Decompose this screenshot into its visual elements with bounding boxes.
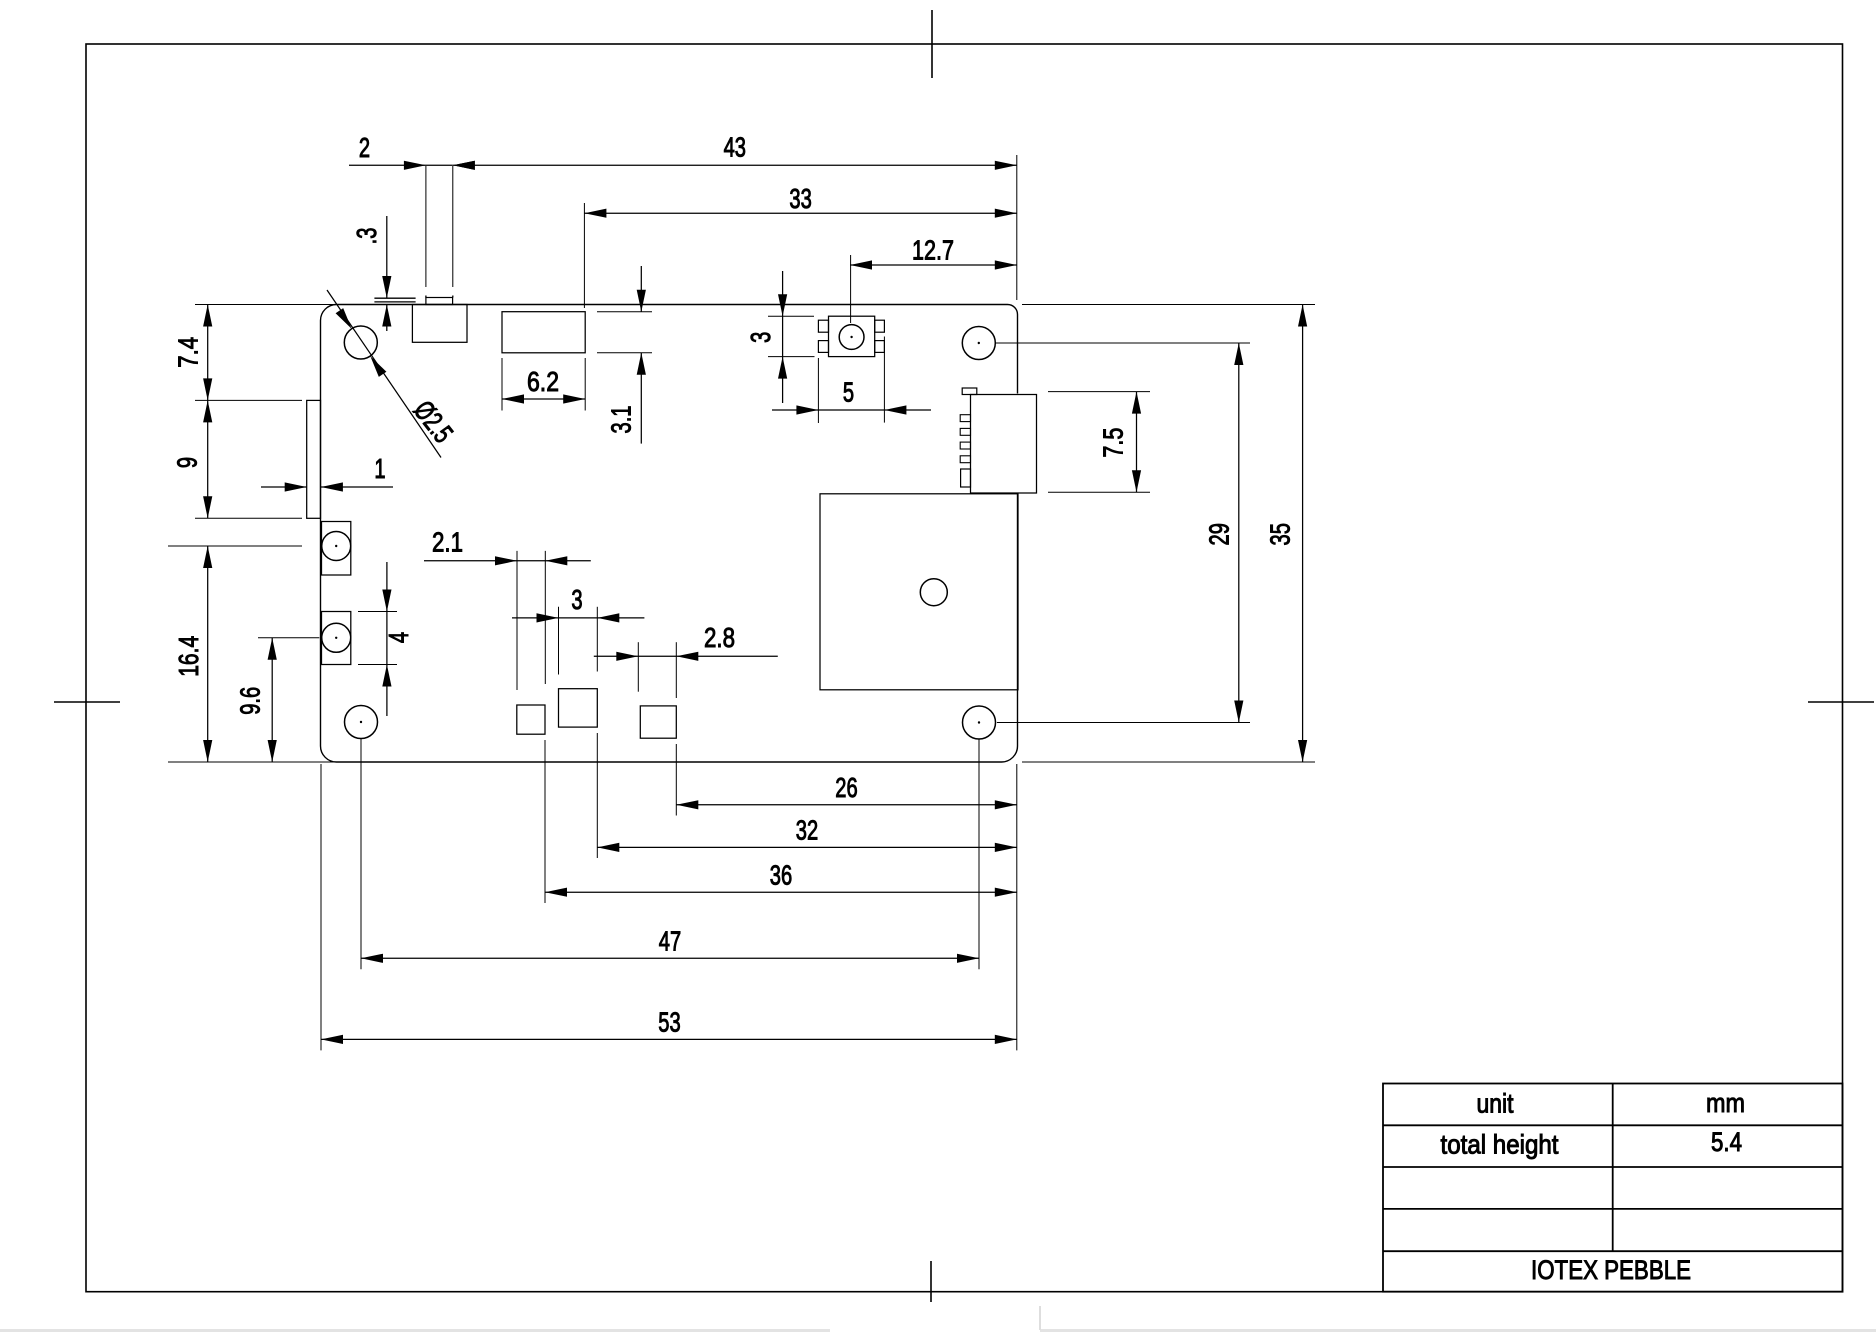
- dimension 7.5 extension lines: [1048, 391, 1150, 393]
- dimension 1 lines: [261, 486, 307, 488]
- dimension 32 line: [597, 846, 1017, 848]
- svg-text:35: 35: [1265, 523, 1296, 545]
- module centre circle: [920, 579, 947, 606]
- dimension 3 ufl extension lines: [768, 315, 814, 317]
- dimension 12.7 extension line: [850, 255, 852, 323]
- hole diameter leader line: [327, 290, 441, 458]
- svg-text:29: 29: [1204, 523, 1235, 545]
- svg-text:36: 36: [770, 860, 792, 891]
- svg-text:3.1: 3.1: [606, 406, 637, 434]
- svg-text:47: 47: [659, 926, 681, 957]
- u.FL antenna connector body: [829, 316, 875, 356]
- svg-text:33: 33: [789, 183, 811, 214]
- dimension 6.2 line: [502, 398, 585, 400]
- frame centre tick bottom: [930, 1261, 932, 1302]
- dimension 47 extension lines: [360, 739, 362, 970]
- svg-text:7.4: 7.4: [173, 337, 204, 368]
- dimension 9.6 line: [271, 638, 273, 762]
- svg-text:.3: .3: [351, 228, 382, 245]
- svg-text:6.2: 6.2: [527, 366, 559, 397]
- dimension 16.4 extension lines: [168, 545, 302, 547]
- module shield rectangle: [820, 494, 1018, 690]
- dimension 33 extension line: [583, 203, 585, 308]
- dimension 4 arrows: [386, 562, 388, 612]
- svg-text:9: 9: [172, 457, 203, 468]
- dimension 7.4 extension lines: [195, 304, 337, 306]
- side button 2 body: [322, 612, 351, 665]
- dimension 36 extension line: [544, 740, 546, 903]
- dimension 36 line: [545, 891, 1017, 893]
- dimension 53 line: [321, 1038, 1017, 1040]
- dimension 9 line: [207, 400, 209, 518]
- svg-text:Ø2.5: Ø2.5: [408, 395, 459, 449]
- mounting hole bottom-left: [345, 706, 378, 739]
- page edge grey line right: [1040, 1329, 1876, 1332]
- dimension 43 extension line right: [1016, 155, 1018, 300]
- page edge grey tick: [1039, 1306, 1041, 1330]
- svg-text:32: 32: [796, 815, 818, 846]
- dimension 35 extension lines: [1022, 304, 1315, 306]
- svg-text:43: 43: [724, 132, 746, 163]
- dimension 26 extension lines: [675, 744, 677, 816]
- dimension 32 extension line: [596, 733, 598, 858]
- dimension 53 extension line left: [320, 764, 322, 1050]
- dimension 4 extension lines: [358, 611, 397, 613]
- thin strip 0.3mm on top edge: [374, 297, 415, 299]
- pad square 1: [517, 705, 545, 734]
- dimension 12.7 line: [850, 264, 1017, 266]
- dimension 2 lines: [349, 164, 453, 166]
- svg-text:IOTEX PEBBLE: IOTEX PEBBLE: [1531, 1255, 1691, 1285]
- dimension 35 line: [1302, 305, 1304, 763]
- svg-text:unit: unit: [1477, 1089, 1514, 1119]
- dimension 7.5 line: [1136, 392, 1138, 493]
- svg-text:3: 3: [745, 332, 776, 343]
- svg-text:2.1: 2.1: [432, 527, 463, 558]
- svg-text:5.4: 5.4: [1711, 1127, 1742, 1157]
- svg-text:2.8: 2.8: [704, 622, 735, 653]
- dimension 43 line: [453, 164, 1017, 166]
- dimension 2 extension lines: [425, 166, 427, 287]
- dimension 3 ufl arrows: [782, 271, 784, 316]
- dimension 29 extension lines: [996, 342, 1250, 344]
- svg-text:total height: total height: [1441, 1130, 1559, 1160]
- mounting hole top-right: [962, 327, 995, 360]
- dimension 5 extension lines: [817, 358, 819, 423]
- dimension 2.1 lines: [424, 560, 517, 562]
- dimension 9 extension line: [195, 517, 302, 519]
- dimension 2.8 extension lines: [637, 642, 639, 692]
- dimension 47 line: [361, 957, 979, 959]
- JST connector with pin comb: [971, 395, 1037, 494]
- svg-text:3: 3: [571, 584, 582, 615]
- dimension 9.6 extension line: [258, 637, 319, 639]
- dimension 3.1 extension lines: [597, 311, 652, 313]
- pad square 2: [559, 689, 598, 727]
- dimension 6.2 extension lines: [501, 358, 503, 411]
- pad square 3: [640, 706, 676, 738]
- svg-text:16.4: 16.4: [173, 636, 204, 677]
- USB connector tongue bump: [426, 298, 453, 305]
- svg-text:7.5: 7.5: [1098, 428, 1129, 458]
- dimension 33 line: [584, 212, 1016, 214]
- dimension 2.8 lines: [594, 655, 639, 657]
- dimension 2.1 extension lines: [516, 551, 518, 690]
- title block table: [1383, 1084, 1843, 1292]
- svg-text:5: 5: [843, 377, 854, 408]
- dimension 26 line: [676, 804, 1017, 806]
- dimension 3 pad lines: [512, 617, 559, 619]
- left edge connector outline: [307, 400, 321, 518]
- leader arrowhead upper: [336, 308, 352, 329]
- svg-text:12.7: 12.7: [912, 235, 954, 266]
- dimension 29 line: [1238, 343, 1240, 723]
- frame centre tick right: [1808, 701, 1874, 703]
- side button 1 actuator circle: [322, 532, 351, 561]
- leader arrowhead lower: [370, 356, 386, 377]
- USB connector body: [412, 305, 467, 343]
- mounting hole top-left: [344, 326, 377, 359]
- PCB board outline: [321, 305, 1018, 763]
- component rectangle 6.2x3.1: [502, 312, 585, 353]
- svg-text:mm: mm: [1706, 1088, 1745, 1118]
- dimension 3.1 arrows: [640, 266, 642, 312]
- mounting hole bottom-right: [963, 706, 996, 739]
- dimension .3 arrows: [386, 216, 388, 298]
- dimension 3 pad extension lines: [558, 607, 560, 675]
- svg-text:2: 2: [359, 132, 370, 163]
- u.FL centre circle: [839, 325, 864, 350]
- svg-text:9.6: 9.6: [235, 687, 266, 715]
- dimension 5 lines: [772, 409, 818, 411]
- svg-text:1: 1: [374, 453, 385, 484]
- svg-text:4: 4: [383, 632, 414, 643]
- dimension 7.4 line: [207, 305, 209, 401]
- dimension 16.4 line: [207, 546, 209, 762]
- frame centre tick left: [54, 701, 120, 703]
- side button 1 body: [322, 522, 351, 576]
- svg-text:53: 53: [658, 1007, 680, 1038]
- svg-text:26: 26: [835, 772, 857, 803]
- frame centre tick top: [931, 10, 933, 78]
- page edge grey line left: [0, 1329, 830, 1332]
- side button 2 actuator circle: [322, 623, 351, 652]
